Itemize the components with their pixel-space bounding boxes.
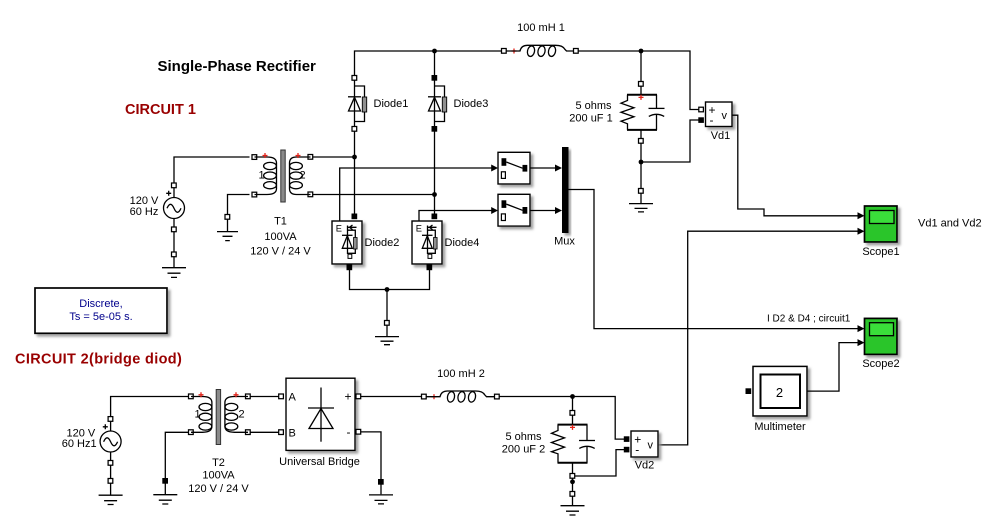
svg-text:Single-Phase Rectifier: Single-Phase Rectifier bbox=[158, 58, 317, 75]
svg-text:1: 1 bbox=[258, 170, 264, 182]
svg-text:CIRCUIT 1: CIRCUIT 1 bbox=[125, 102, 196, 118]
svg-text:5 ohms: 5 ohms bbox=[575, 100, 612, 112]
svg-text:T2: T2 bbox=[212, 457, 225, 469]
wire Vd2 output to Scope1 input 2 bbox=[658, 228, 865, 445]
svg-text:200 uF 2: 200 uF 2 bbox=[502, 444, 545, 456]
wire T1 primary bottom to ground bbox=[228, 195, 250, 215]
wire RLC2 bottom to Vd2 minus bbox=[575, 450, 624, 476]
svg-text:E: E bbox=[416, 224, 422, 234]
svg-text:200 uF 1: 200 uF 1 bbox=[569, 113, 612, 125]
svg-text:120 V / 24 V: 120 V / 24 V bbox=[250, 246, 311, 258]
wire T2 secondary to Universal Bridge A bbox=[251, 396, 279, 398]
svg-text:v: v bbox=[722, 110, 728, 122]
svg-text:2: 2 bbox=[238, 408, 244, 420]
ground under Universal Bridge minus bbox=[369, 480, 393, 504]
ground under RLC1 bbox=[629, 189, 653, 212]
svg-text:Multimeter: Multimeter bbox=[754, 421, 806, 433]
svg-text:Vd1 and Vd2: Vd1 and Vd2 bbox=[918, 218, 982, 230]
svg-text:100VA: 100VA bbox=[264, 231, 297, 243]
svg-text:B: B bbox=[289, 427, 296, 439]
wire Multimeter output to Scope2 input 2 bbox=[807, 339, 865, 391]
svg-text:Diode3: Diode3 bbox=[454, 98, 489, 110]
transformer T2 (linear transformer 100VA 120V/24V) bbox=[188, 390, 250, 496]
svg-text:E: E bbox=[336, 224, 342, 234]
svg-text:CIRCUIT 2(bridge diod): CIRCUIT 2(bridge diod) bbox=[15, 352, 182, 368]
svg-text:2: 2 bbox=[299, 170, 305, 182]
wire Mux output to Scope2 input 1, labelled I D2 & D4 ; circuit1 bbox=[569, 190, 865, 333]
wire Vd1 output to Scope1 input 1 bbox=[732, 115, 865, 219]
wire T2 secondary to Universal Bridge B bbox=[251, 431, 279, 433]
svg-text:100VA: 100VA bbox=[202, 470, 235, 482]
wire V1 to ground bbox=[173, 232, 175, 252]
svg-text:100 mH 2: 100 mH 2 bbox=[437, 368, 485, 380]
wire T2 primary bottom to ground bbox=[165, 432, 188, 478]
svg-text:T1: T1 bbox=[274, 216, 287, 228]
svg-text:Scope1: Scope1 bbox=[862, 246, 899, 258]
ground under V1 bbox=[162, 252, 186, 277]
svg-text:+: + bbox=[345, 390, 352, 404]
svg-text:1: 1 bbox=[194, 408, 200, 420]
Multimeter block bbox=[746, 366, 807, 432]
svg-text:-: - bbox=[347, 425, 351, 439]
wire RLC2 bottom node to ground bbox=[570, 479, 575, 492]
parallel RLC load 2 (5 ohms 200 uF 2) bbox=[502, 411, 595, 479]
scope block Scope2 bbox=[862, 318, 899, 370]
svg-text:2: 2 bbox=[776, 385, 783, 400]
svg-text:5 ohms: 5 ohms bbox=[505, 431, 542, 443]
wire Universal Bridge - to ground bbox=[361, 432, 381, 480]
annotation "Vd1 and Vd2" bbox=[918, 218, 982, 230]
Mux block bbox=[554, 147, 575, 248]
svg-text:-: - bbox=[635, 443, 639, 457]
wire V2 to ground bbox=[110, 466, 112, 479]
svg-text:Universal Bridge: Universal Bridge bbox=[279, 456, 360, 468]
svg-text:-: - bbox=[710, 113, 714, 127]
svg-text:100 mH 1: 100 mH 1 bbox=[517, 22, 565, 34]
svg-text:60 Hz: 60 Hz bbox=[130, 206, 159, 218]
svg-text:Scope2: Scope2 bbox=[862, 358, 899, 370]
wire Universal Bridge + to inductor L2 bbox=[361, 396, 422, 398]
svg-text:v: v bbox=[648, 440, 654, 452]
parallel RLC load 1 (5 ohms 200 uF 1) bbox=[569, 82, 664, 144]
svg-text:Diode2: Diode2 bbox=[365, 237, 400, 249]
ground under T2 primary bbox=[153, 479, 177, 505]
diode Diode1 bbox=[348, 76, 408, 132]
wire T1 secondary top to node (junction to Diode1/Diode2) bbox=[313, 132, 357, 215]
diode block Diode2 (with measurement) bbox=[332, 214, 399, 270]
wire Diode2/Diode4 cathodes to common node bbox=[350, 270, 430, 321]
AC voltage source V1 (120 V 60 Hz) bbox=[130, 183, 185, 232]
wire inductor L2 to load node and Vd2 plus bbox=[500, 394, 625, 439]
title annotation "Single-Phase Rectifier" bbox=[158, 58, 317, 75]
svg-text:60 Hz1: 60 Hz1 bbox=[62, 438, 97, 450]
wire switch 1 to Mux input 1 bbox=[530, 165, 562, 172]
annotation "CIRCUIT 2(bridge diod)" bbox=[15, 352, 182, 368]
diode Diode3 bbox=[428, 76, 488, 132]
wire T1 secondary bottom to node (junction to Diode3/Diode4) bbox=[313, 132, 437, 215]
inductor L1 (100 mH 1) bbox=[502, 22, 579, 57]
wire Diode4 measurement output to switch 2 bbox=[419, 207, 498, 221]
wire V2 to T2 primary top bbox=[111, 397, 189, 417]
wire V1 to T1 primary top bbox=[174, 157, 250, 183]
ground under V2 bbox=[99, 479, 123, 505]
scope block Scope1 bbox=[862, 206, 899, 258]
ground under Diode2/Diode4 node bbox=[375, 321, 399, 345]
voltage measurement Vd2 bbox=[624, 431, 658, 472]
svg-text:Diode4: Diode4 bbox=[445, 237, 480, 249]
svg-text:Vd2: Vd2 bbox=[635, 460, 655, 472]
wire Diode2 measurement output to switch 1 bbox=[340, 165, 498, 222]
svg-text:Vd1: Vd1 bbox=[711, 130, 731, 142]
switch block 1 (current selector) bbox=[498, 152, 530, 184]
diode block Diode4 (with measurement) bbox=[412, 214, 479, 270]
wire RLC1 bottom to node A (to Vd1 minus and ground) bbox=[639, 120, 699, 189]
svg-text:A: A bbox=[289, 392, 297, 404]
wire top rail (Diode1/Diode3 cathodes to inductor L1 and load) bbox=[355, 49, 699, 110]
svg-text:I D2 & D4 ; circuit1: I D2 & D4 ; circuit1 bbox=[767, 314, 851, 325]
transformer T1 (linear transformer 100VA 120V/24V) bbox=[250, 150, 312, 258]
Universal Bridge block bbox=[279, 378, 361, 468]
powergui block (Discrete, Ts = 5e-05 s.) bbox=[35, 288, 167, 333]
svg-text:Mux: Mux bbox=[554, 236, 575, 248]
inductor L2 (100 mH 2) bbox=[422, 368, 500, 403]
svg-text:Discrete,: Discrete, bbox=[79, 298, 122, 310]
svg-text:120 V / 24 V: 120 V / 24 V bbox=[188, 483, 249, 495]
wire switch 2 to Mux input 2 bbox=[530, 207, 562, 214]
svg-text:Diode1: Diode1 bbox=[374, 98, 409, 110]
ground under T1 primary bbox=[217, 215, 238, 241]
voltage measurement Vd1 bbox=[699, 102, 732, 142]
ground under RLC2 bbox=[561, 492, 585, 516]
svg-text:Ts = 5e-05 s.: Ts = 5e-05 s. bbox=[69, 311, 132, 323]
annotation "CIRCUIT 1" bbox=[125, 102, 196, 118]
switch block 2 (current selector) bbox=[498, 194, 530, 226]
AC voltage source V2 (120 V 60 Hz1) bbox=[62, 417, 121, 466]
